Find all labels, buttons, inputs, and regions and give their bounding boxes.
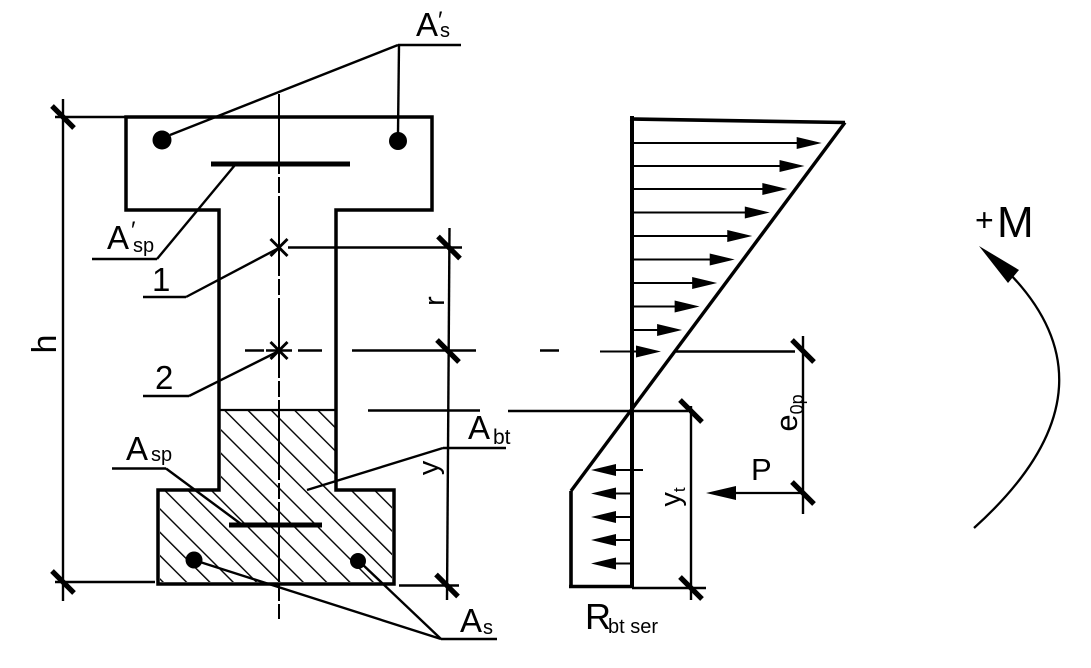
svg-text:2: 2 <box>155 359 173 396</box>
svg-text:y: y <box>413 460 445 475</box>
svg-text:A: A <box>126 430 148 467</box>
svg-text:A: A <box>468 409 490 446</box>
svg-text:A: A <box>107 219 129 256</box>
svg-text:r: r <box>419 296 451 306</box>
svg-text:M: M <box>997 198 1034 247</box>
svg-text:1: 1 <box>152 261 170 298</box>
svg-text:P: P <box>751 452 772 487</box>
svg-text:+: + <box>975 202 994 238</box>
svg-text:sp: sp <box>133 235 154 257</box>
svg-text:bt: bt <box>493 426 511 449</box>
svg-text:A: A <box>460 602 482 639</box>
svg-text:s: s <box>440 20 450 42</box>
svg-text:h: h <box>26 335 64 354</box>
svg-text:s: s <box>483 617 493 639</box>
svg-text:sp: sp <box>151 444 172 466</box>
svg-text:bt ser: bt ser <box>608 616 658 638</box>
svg-text:A: A <box>416 6 438 43</box>
